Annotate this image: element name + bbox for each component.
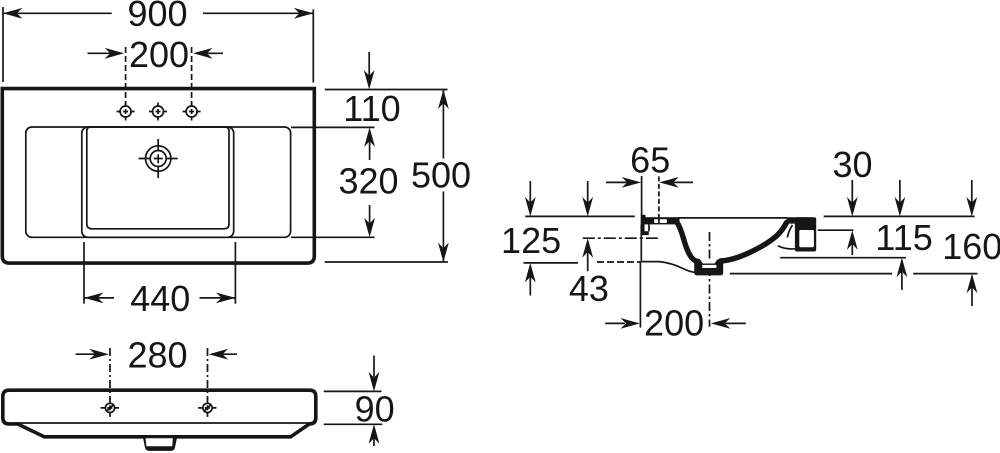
svg-text:30: 30 [832,144,872,185]
svg-text:440: 440 [130,278,190,319]
svg-text:90: 90 [355,388,395,429]
svg-text:43: 43 [569,268,609,309]
svg-text:160: 160 [942,226,1000,267]
svg-text:65: 65 [630,139,670,180]
svg-text:115: 115 [875,217,932,258]
svg-text:200: 200 [129,34,189,75]
svg-text:125: 125 [501,220,561,261]
svg-text:900: 900 [127,0,187,34]
svg-text:320: 320 [338,160,398,201]
svg-text:500: 500 [411,154,471,195]
svg-text:280: 280 [127,335,187,376]
svg-text:110: 110 [343,88,400,129]
svg-text:200: 200 [644,303,704,344]
